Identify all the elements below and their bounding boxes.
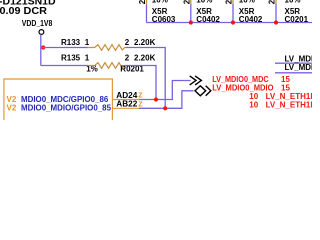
- svg-text:1: 1: [85, 38, 90, 47]
- svg-text:R133: R133: [61, 38, 81, 47]
- capacitor C1 stub wire: [146, 5, 148, 23]
- node junction dot capacitor C4: [274, 20, 278, 24]
- svg-text:2: 2: [225, 0, 234, 4]
- wire: R135 pin2 to corner: [125, 66, 156, 100]
- svg-text:10%: 10%: [196, 0, 212, 5]
- wire: VDD_1V8 vertical drop: [40, 34, 42, 65]
- svg-text:V2: V2: [7, 104, 17, 113]
- power symbol VDD_1V8 (circle): [39, 30, 44, 35]
- capacitor rail wire: [147, 22, 313, 24]
- svg-text:2.20K: 2.20K: [134, 38, 156, 47]
- capacitor C3 stub wire: [232, 4, 234, 23]
- svg-text:1: 1: [85, 54, 90, 63]
- svg-text:2: 2: [125, 38, 130, 47]
- IC pin MDIO0_MDIO stub: [112, 107, 139, 109]
- svg-text:R135: R135: [61, 54, 81, 63]
- svg-text:Z: Z: [138, 101, 143, 108]
- node junction dot at R133 pin1: [41, 45, 45, 49]
- svg-text:C0603: C0603: [152, 15, 176, 24]
- node junction dot (R133 to MDIO wire): [163, 106, 167, 110]
- svg-text:C0402: C0402: [196, 15, 220, 24]
- svg-text:10: 10: [249, 101, 258, 110]
- wire: R133 pin1 segment: [41, 47, 88, 49]
- svg-text:10: 10: [249, 92, 258, 101]
- svg-text:LV_MDIO: LV_MDIO: [285, 63, 313, 72]
- resistor R133 body (zigzag): [88, 45, 126, 51]
- wire: vertical to R135 pin1: [41, 65, 88, 67]
- node junction dot capacitor C2: [189, 20, 193, 24]
- svg-text:C0402: C0402: [239, 15, 263, 24]
- svg-text:10%: 10%: [239, 0, 255, 5]
- svg-text:LV_N_ETH1M: LV_N_ETH1M: [266, 92, 312, 101]
- svg-text:AB22: AB22: [116, 99, 138, 108]
- svg-text:0.09 DCR: 0.09 DCR: [0, 5, 47, 17]
- svg-text:10%: 10%: [285, 0, 301, 5]
- off-page connector diamond (LV_MDIO0_MDIO): [195, 86, 211, 96]
- svg-text:VDD_1V8: VDD_1V8: [22, 19, 53, 28]
- wire: upper right net 1: [275, 62, 312, 64]
- IC pin MDIO0_MDC stub: [112, 99, 139, 101]
- capacitor C2 stub wire: [190, 4, 192, 23]
- capacitor C3 lead (tan): [232, 0, 234, 4]
- svg-text:10%: 10%: [152, 0, 168, 5]
- wire: R133 pin2 to corner: [125, 48, 165, 109]
- svg-text:MDIO0_MDC/GPIO0_86: MDIO0_MDC/GPIO0_86: [21, 95, 109, 104]
- IC U1 body outline (orange box, cut off): [4, 79, 113, 120]
- capacitor C4 lead (tan): [275, 0, 277, 4]
- svg-text:MDIO0_MDIO/GPIO0_85: MDIO0_MDIO/GPIO0_85: [21, 104, 112, 113]
- svg-text:LV_N_ETH1M: LV_N_ETH1M: [266, 101, 312, 110]
- svg-text:LV_MDIO0_MDIO: LV_MDIO0_MDIO: [212, 84, 273, 93]
- svg-text:2: 2: [138, 0, 147, 4]
- svg-text:2.20K: 2.20K: [134, 54, 156, 63]
- capacitor C1 lead (tan): [146, 0, 148, 5]
- svg-text:C0201: C0201: [285, 15, 309, 24]
- svg-text:2: 2: [125, 54, 130, 63]
- off-page connector chevron (LV_MDIO0_MDC): [190, 76, 202, 85]
- svg-text:V2: V2: [7, 95, 17, 104]
- svg-text:2: 2: [268, 0, 277, 4]
- node junction dot capacitor C3: [231, 20, 235, 24]
- svg-text:2: 2: [182, 0, 191, 4]
- capacitor C4 stub wire: [275, 4, 277, 23]
- resistor R135 body (zigzag): [88, 63, 126, 69]
- wire: MDIO net horizontal (AB22 row): [139, 91, 194, 109]
- wire: MDC net horizontal (AD24 row): [139, 81, 191, 100]
- node junction dot (R135 to MDC wire): [154, 97, 158, 101]
- capacitor C2 lead (tan): [190, 0, 192, 4]
- svg-text:Z: Z: [138, 92, 143, 99]
- wire: upper right net 2: [275, 72, 312, 74]
